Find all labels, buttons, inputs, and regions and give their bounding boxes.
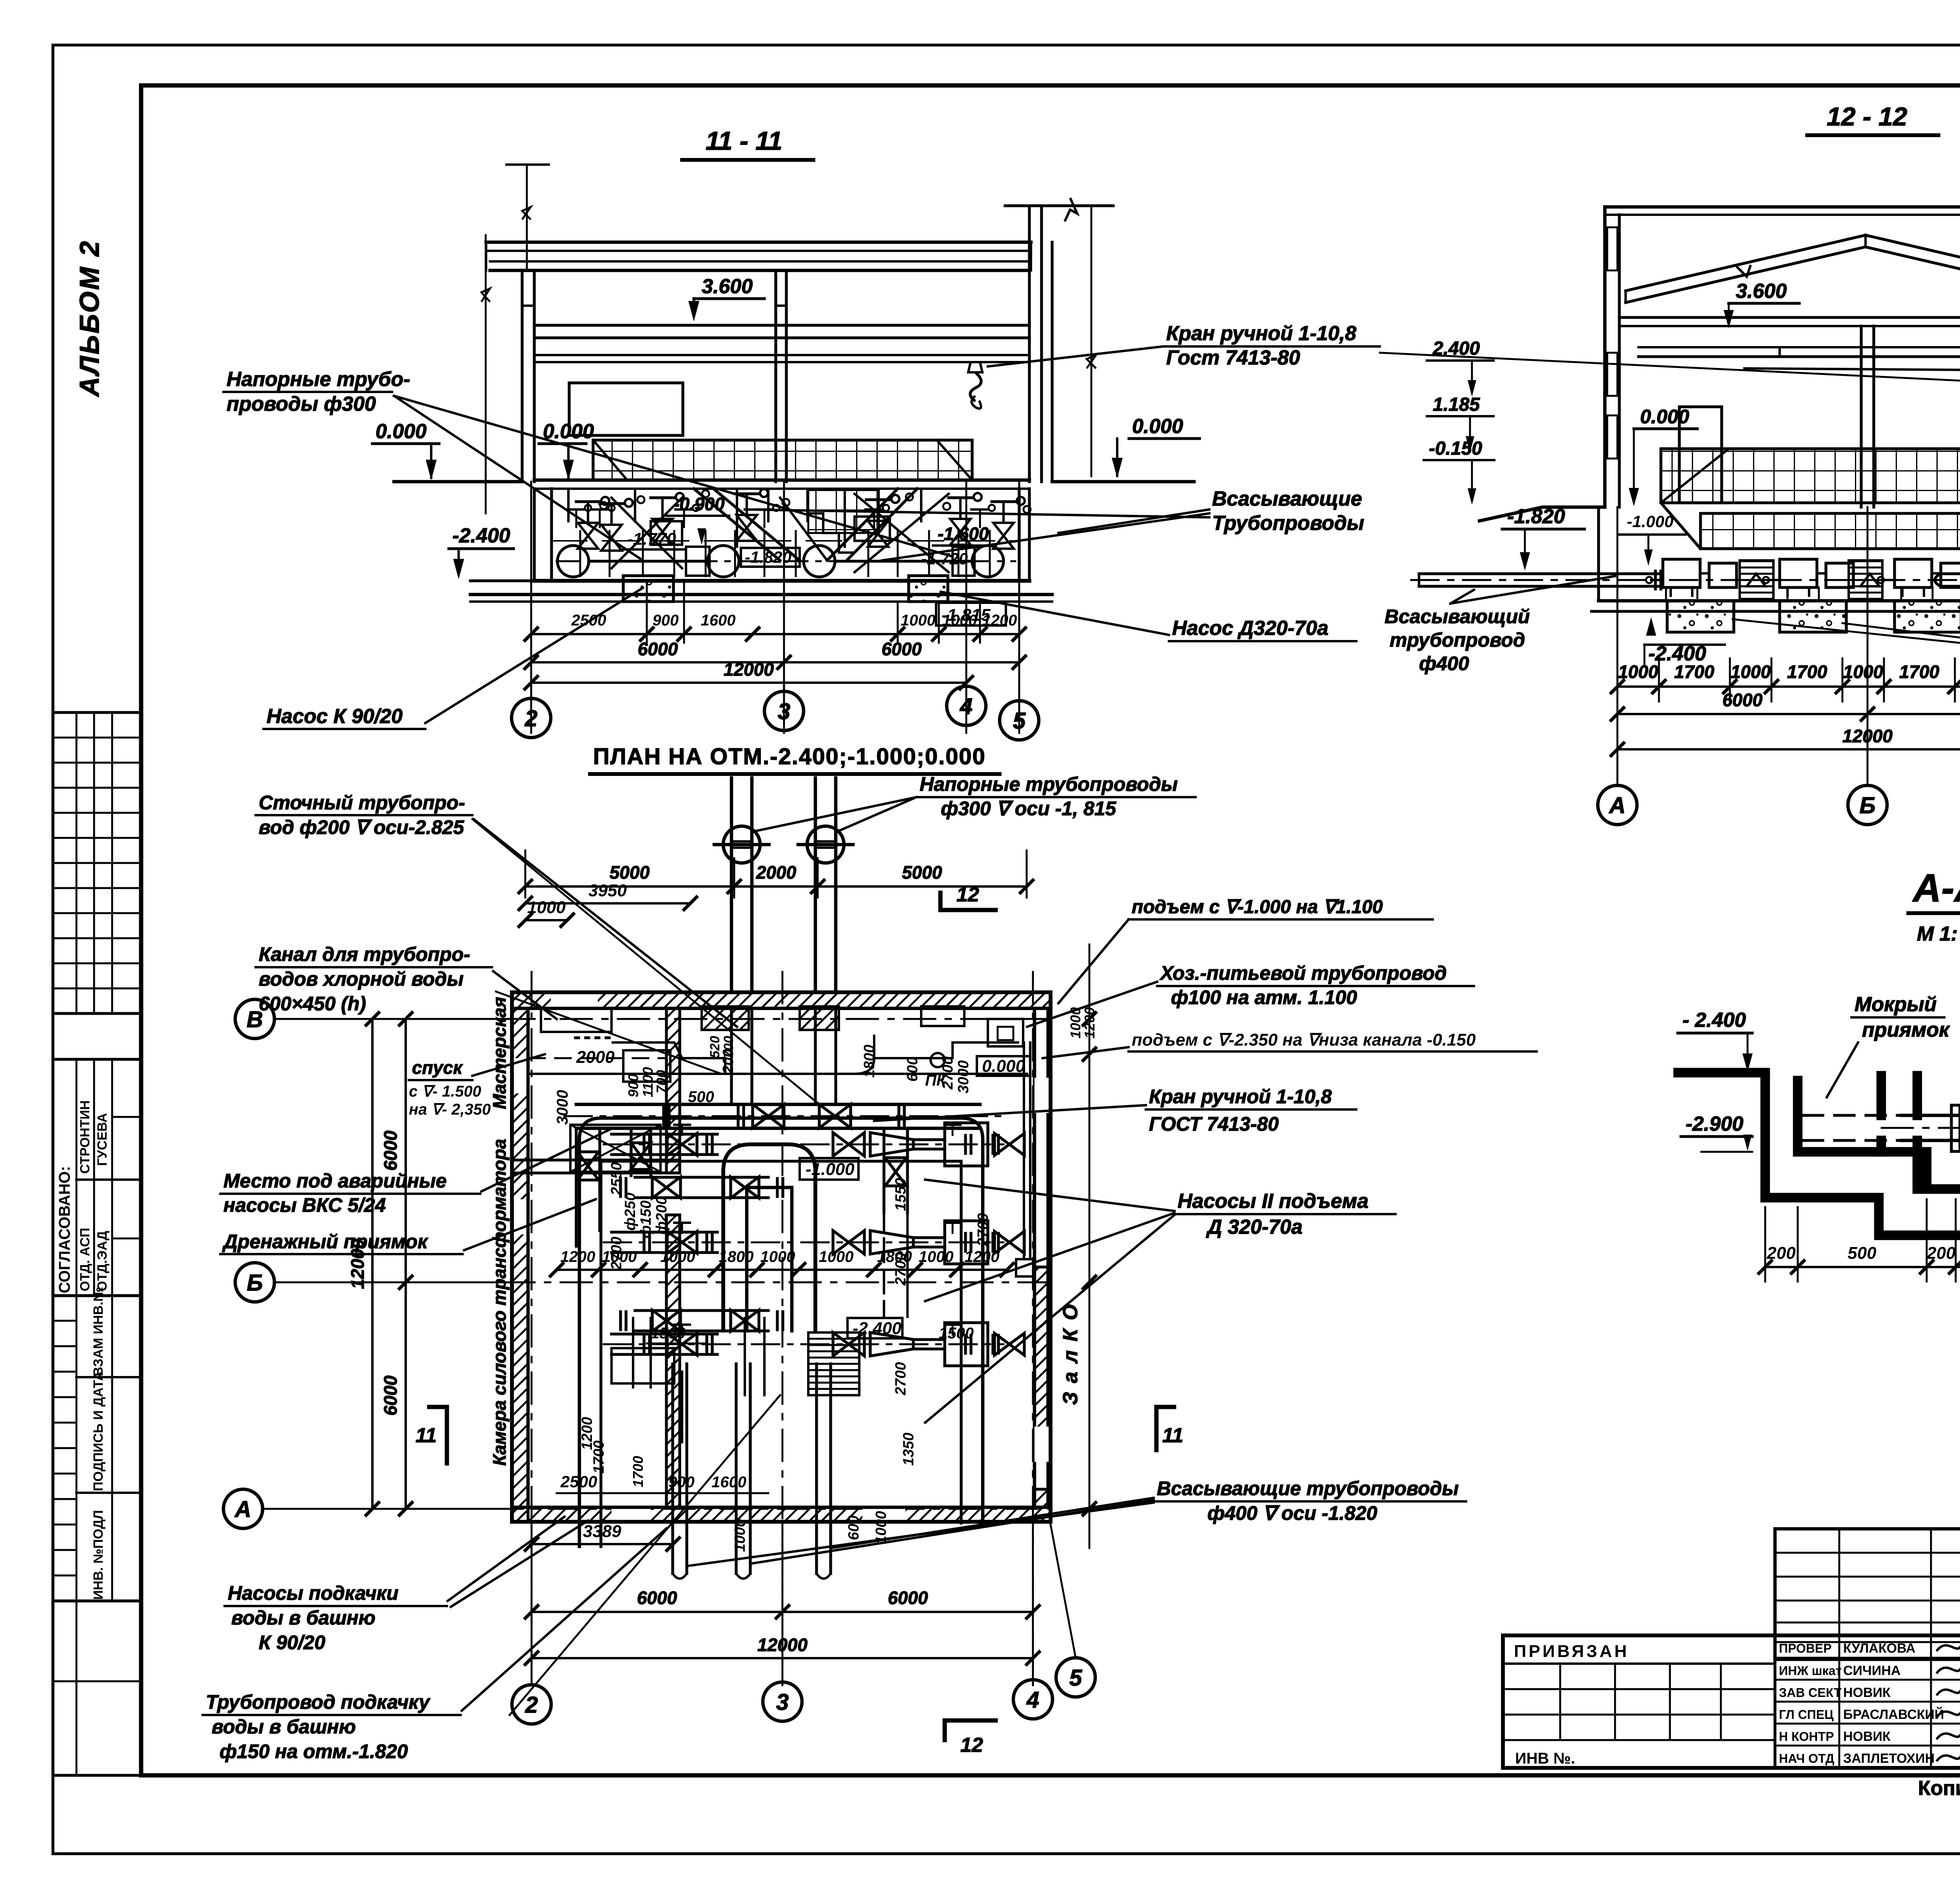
svg-text:1000: 1000 <box>1618 662 1659 682</box>
svg-text:1700: 1700 <box>1787 662 1828 682</box>
svg-text:-1.000: -1.000 <box>1627 512 1673 531</box>
svg-text:200: 200 <box>720 1049 737 1074</box>
svg-text:200: 200 <box>1766 1244 1796 1263</box>
svg-text:12000: 12000 <box>1842 726 1893 746</box>
svg-text:Кран ручной 1-10,8: Кран ручной 1-10,8 <box>1149 1086 1332 1108</box>
svg-text:БРАСЛАВСКИЙ: БРАСЛАВСКИЙ <box>1843 1707 1944 1722</box>
svg-text:Б: Б <box>247 1270 263 1296</box>
svg-text:АЛЬБОМ 2: АЛЬБОМ 2 <box>74 239 105 397</box>
svg-text:ф300 ∇ оси -1, 815: ф300 ∇ оси -1, 815 <box>941 798 1117 819</box>
svg-text:1700: 1700 <box>630 1456 646 1487</box>
svg-text:3950: 3950 <box>588 881 627 900</box>
svg-text:вод ф200 ∇ оси-2.825: вод ф200 ∇ оси-2.825 <box>259 816 465 838</box>
svg-text:1000: 1000 <box>732 1519 748 1552</box>
svg-text:2700: 2700 <box>893 1362 909 1396</box>
svg-text:1000: 1000 <box>1843 662 1884 682</box>
svg-text:ф150: ф150 <box>638 1200 654 1238</box>
svg-text:12: 12 <box>960 1734 983 1757</box>
svg-text:2550: 2550 <box>608 1162 625 1196</box>
svg-text:ф200: ф200 <box>653 1196 670 1235</box>
svg-text:Напорные трубопроводы: Напорные трубопроводы <box>920 773 1178 795</box>
svg-text:1700: 1700 <box>1899 662 1940 682</box>
svg-text:1200: 1200 <box>1082 1007 1098 1039</box>
svg-text:12000: 12000 <box>757 1635 808 1655</box>
svg-text:6000: 6000 <box>882 639 922 659</box>
svg-text:ГУСЕВА: ГУСЕВА <box>95 1113 110 1166</box>
svg-text:6000: 6000 <box>638 639 678 659</box>
svg-text:1000: 1000 <box>942 612 977 629</box>
svg-text:0.000: 0.000 <box>376 420 426 443</box>
svg-text:ЗАВ СЕКТ: ЗАВ СЕКТ <box>1779 1686 1842 1700</box>
svg-text:А: А <box>234 1497 251 1522</box>
svg-text:насосы ВКС 5/24: насосы ВКС 5/24 <box>223 1194 386 1216</box>
svg-text:ПРОВЕР: ПРОВЕР <box>1779 1641 1832 1655</box>
svg-text:Место под аварийные: Место под аварийные <box>223 1170 446 1192</box>
svg-text:900: 900 <box>668 1474 695 1491</box>
svg-text:-0.900: -0.900 <box>673 494 725 514</box>
svg-text:600×450 (h): 600×450 (h) <box>259 993 366 1015</box>
svg-text:ИНВ. №ПОДЛ: ИНВ. №ПОДЛ <box>91 1510 106 1600</box>
svg-text:3.600: 3.600 <box>702 275 753 298</box>
svg-text:ф400 ∇ оси -1.820: ф400 ∇ оси -1.820 <box>1207 1502 1377 1524</box>
svg-text:воды в башню: воды в башню <box>231 1607 376 1629</box>
svg-text:1200: 1200 <box>982 612 1017 629</box>
svg-text:Дренажный приямок: Дренажный приямок <box>222 1231 428 1253</box>
svg-text:1700: 1700 <box>1674 662 1715 682</box>
svg-text:11 - 11: 11 - 11 <box>706 126 782 155</box>
svg-text:Д 320-70а: Д 320-70а <box>1206 1216 1303 1238</box>
svg-text:1600: 1600 <box>701 612 736 629</box>
svg-text:1500: 1500 <box>939 1325 974 1342</box>
svg-text:1000: 1000 <box>1067 1007 1083 1039</box>
svg-text:Насос Д320-70а: Насос Д320-70а <box>1172 617 1328 640</box>
svg-text:трубопровод: трубопровод <box>1390 629 1525 651</box>
svg-text:Трубопровод подкачку: Трубопровод подкачку <box>206 1691 430 1713</box>
svg-text:Всасывающие трубопроводы: Всасывающие трубопроводы <box>1157 1477 1459 1499</box>
svg-text:3000: 3000 <box>554 1090 571 1125</box>
svg-text:6000: 6000 <box>1722 690 1763 710</box>
svg-text:1600: 1600 <box>711 1474 746 1491</box>
svg-text:ГОСТ 7413-80: ГОСТ 7413-80 <box>1149 1113 1279 1135</box>
svg-text:2000: 2000 <box>756 862 797 883</box>
svg-text:1.185: 1.185 <box>1433 394 1480 415</box>
svg-text:Б: Б <box>1859 793 1875 818</box>
svg-text:4: 4 <box>960 694 973 719</box>
svg-text:ИНВ №.: ИНВ №. <box>1515 1750 1575 1767</box>
svg-text:2700: 2700 <box>975 1213 991 1247</box>
svg-text:ОТД.ЭАД: ОТД.ЭАД <box>95 1231 110 1291</box>
svg-text:ИНЖ шкат: ИНЖ шкат <box>1779 1664 1842 1678</box>
svg-text:Трубопроводы: Трубопроводы <box>1212 512 1364 535</box>
svg-text:НОВИК: НОВИК <box>1843 1685 1891 1700</box>
svg-text:0.000: 0.000 <box>543 420 594 443</box>
svg-text:11: 11 <box>1162 1424 1183 1447</box>
svg-text:3: 3 <box>778 699 790 724</box>
svg-text:5000: 5000 <box>902 862 942 883</box>
svg-text:на ∇- 2,350: на ∇- 2,350 <box>409 1101 491 1118</box>
svg-text:900: 900 <box>653 612 679 629</box>
svg-text:-2.400: -2.400 <box>452 524 510 547</box>
svg-text:6000: 6000 <box>380 1130 401 1171</box>
svg-text:2000: 2000 <box>576 1048 615 1067</box>
svg-text:подъем с ∇-1.000 на ∇1.100: подъем с ∇-1.000 на ∇1.100 <box>1132 897 1383 917</box>
svg-text:ПОДПИСЬ И ДАТА: ПОДПИСЬ И ДАТА <box>91 1371 106 1491</box>
svg-text:Всасывающий: Всасывающий <box>1385 605 1530 627</box>
svg-text:1000: 1000 <box>760 1248 795 1265</box>
svg-text:К 90/20: К 90/20 <box>259 1632 325 1653</box>
svg-text:Н КОНТР: Н КОНТР <box>1779 1729 1834 1744</box>
svg-text:СИЧИНА: СИЧИНА <box>1843 1663 1900 1678</box>
svg-text:ЗАПЛЕТОХИН: ЗАПЛЕТОХИН <box>1843 1751 1935 1766</box>
svg-text:с ∇- 1.500: с ∇- 1.500 <box>409 1083 481 1100</box>
svg-text:спуск: спуск <box>412 1057 463 1078</box>
svg-text:приямок: приямок <box>1862 1019 1950 1041</box>
svg-text:З а л К О: З а л К О <box>1059 1303 1082 1405</box>
svg-text:Канал для трубопро-: Канал для трубопро- <box>259 943 470 965</box>
svg-text:ф400: ф400 <box>1419 653 1469 674</box>
svg-text:ПЛАН НА ОТМ.-2.400;-1.000;0.00: ПЛАН НА ОТМ.-2.400;-1.000;0.000 <box>593 744 986 769</box>
svg-text:2500: 2500 <box>560 1472 597 1491</box>
svg-text:НАЧ ОТД: НАЧ ОТД <box>1779 1751 1835 1766</box>
svg-text:А: А <box>1608 793 1626 818</box>
svg-text:3000: 3000 <box>955 1060 972 1093</box>
svg-text:500: 500 <box>688 1088 714 1106</box>
svg-text:Насосы подкачки: Насосы подкачки <box>228 1582 399 1604</box>
svg-text:ф150 на отм.-1.820: ф150 на отм.-1.820 <box>220 1740 408 1762</box>
svg-text:1000: 1000 <box>527 898 566 917</box>
svg-text:Мастерская: Мастерская <box>489 997 510 1109</box>
svg-text:5: 5 <box>1069 1665 1082 1691</box>
svg-text:Хоз.-питьевой трубопровод: Хоз.-питьевой трубопровод <box>1159 962 1447 984</box>
svg-text:ВЗАМ ИНВ.№: ВЗАМ ИНВ.№ <box>91 1287 106 1376</box>
svg-text:12: 12 <box>956 883 979 906</box>
svg-text:ПРИВЯЗАН: ПРИВЯЗАН <box>1514 1642 1629 1661</box>
svg-text:проводы ф300: проводы ф300 <box>227 393 376 415</box>
svg-text:11: 11 <box>416 1424 437 1447</box>
svg-text:-1.820: -1.820 <box>1507 505 1565 528</box>
svg-text:-1.000: -1.000 <box>806 1160 855 1179</box>
svg-text:Насос К 90/20: Насос К 90/20 <box>267 705 403 728</box>
svg-text:Копировал: Коршунова: Копировал: Коршунова <box>1918 1777 1960 1800</box>
svg-text:воды в башню: воды в башню <box>212 1716 356 1738</box>
svg-text:ОТД. АСП: ОТД. АСП <box>78 1228 93 1291</box>
svg-text:600: 600 <box>904 1057 921 1082</box>
svg-text:ф100 на атм. 1.100: ф100 на атм. 1.100 <box>1171 986 1357 1008</box>
svg-text:ГЛ СПЕЦ: ГЛ СПЕЦ <box>1779 1708 1834 1722</box>
svg-text:12 - 12: 12 - 12 <box>1827 102 1907 131</box>
svg-text:900: 900 <box>625 1074 641 1097</box>
svg-text:СТРОНТИН: СТРОНТИН <box>78 1100 93 1174</box>
svg-text:0.000: 0.000 <box>1640 406 1689 428</box>
svg-text:Камера силового трансформатора: Камера силового трансформатора <box>489 1139 510 1466</box>
svg-text:-0.150: -0.150 <box>1429 438 1482 459</box>
svg-text:Насосы II подъема: Насосы II подъема <box>1178 1190 1368 1213</box>
svg-text:Мокрый: Мокрый <box>1855 993 1936 1016</box>
svg-text:М 1: 25: М 1: 25 <box>1917 923 1960 945</box>
svg-text:1000: 1000 <box>901 612 936 629</box>
svg-text:Гост 7413-80: Гост 7413-80 <box>1166 346 1300 369</box>
svg-text:6000: 6000 <box>888 1588 928 1608</box>
svg-text:4: 4 <box>1026 1687 1039 1713</box>
svg-text:1700: 1700 <box>591 1440 607 1474</box>
svg-text:А-А: А-А <box>1912 866 1960 910</box>
svg-text:3.600: 3.600 <box>1736 280 1787 303</box>
svg-text:5000: 5000 <box>610 862 650 883</box>
svg-text:0.000: 0.000 <box>1132 415 1183 438</box>
svg-text:1350: 1350 <box>900 1432 917 1466</box>
svg-text:Кран ручной 1-10,8: Кран ручной 1-10,8 <box>1166 322 1356 345</box>
svg-text:5: 5 <box>1013 708 1026 734</box>
svg-text:2700: 2700 <box>608 1236 625 1270</box>
svg-text:3: 3 <box>776 1690 789 1715</box>
svg-text:- 2.400: - 2.400 <box>1682 1009 1746 1031</box>
svg-text:12000: 12000 <box>724 659 774 680</box>
svg-text:6000: 6000 <box>380 1375 401 1416</box>
svg-text:2.400: 2.400 <box>1432 338 1480 359</box>
svg-text:НОВИК: НОВИК <box>1843 1729 1891 1744</box>
svg-text:2: 2 <box>524 706 537 731</box>
svg-text:600: 600 <box>846 1515 862 1540</box>
svg-text:500: 500 <box>1847 1244 1877 1263</box>
svg-text:1000: 1000 <box>1731 662 1771 682</box>
svg-text:-2.900: -2.900 <box>1686 1113 1744 1135</box>
svg-text:КУЛАКОВА: КУЛАКОВА <box>1843 1641 1915 1656</box>
svg-text:200: 200 <box>1926 1244 1956 1263</box>
svg-text:СОГЛАСОВАНО:: СОГЛАСОВАНО: <box>56 1166 73 1293</box>
svg-text:6000: 6000 <box>637 1588 677 1608</box>
svg-text:Всасывающие: Всасывающие <box>1212 488 1362 510</box>
svg-text:1000: 1000 <box>661 1248 695 1265</box>
svg-text:Сточный трубопро-: Сточный трубопро- <box>259 792 465 814</box>
svg-text:подъем с ∇-2.350 на ∇низа кана: подъем с ∇-2.350 на ∇низа канала -0.150 <box>1132 1030 1476 1050</box>
svg-text:Напорные трубо-: Напорные трубо- <box>227 368 410 391</box>
svg-text:водов хлорной воды: водов хлорной воды <box>259 968 464 990</box>
